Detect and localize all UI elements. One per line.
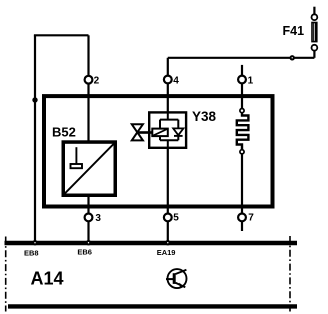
boundary dash-dot left: [5, 237, 7, 312]
valve Y38 check diode triangle: [173, 128, 183, 135]
wire: stub above terminal 1: [241, 65, 243, 76]
relay housing box: [44, 96, 273, 206]
wire: terminal 2 to B52 box: [87, 84, 89, 141]
node: bus junction EA19: [165, 240, 170, 245]
svg-text:4: 4: [173, 75, 179, 86]
fuse F41 body: [312, 22, 317, 42]
semiconductor emitter with arrow: [176, 283, 186, 288]
valve Y38 actuator link line: [138, 131, 153, 134]
svg-text:3: 3: [95, 213, 101, 224]
svg-text:F41: F41: [283, 24, 305, 38]
sensor B52 diagonal: [64, 142, 116, 195]
valve Y38 outer box: [149, 112, 186, 147]
svg-text:A14: A14: [31, 268, 64, 288]
heater element top terminal circle: [240, 109, 244, 113]
semiconductor base bar: [173, 273, 176, 284]
wire: heater element to terminal 7: [241, 154, 243, 214]
valve Y38 coil diagonal: [153, 129, 168, 136]
svg-text:1: 1: [248, 75, 254, 86]
ground bus bar: [5, 241, 298, 246]
valve Y38: [132, 112, 186, 149]
sensor B52 probe symbol stem: [75, 147, 77, 164]
terminal 2 circle: [85, 76, 93, 84]
wire: terminal 4 to valve Y38: [167, 84, 169, 113]
valve Y38 actuator bowtie bottom triangle: [132, 132, 143, 140]
semiconductor collector: [176, 270, 187, 274]
sensor B52 probe symbol plate: [71, 164, 83, 168]
svg-text:2: 2: [94, 76, 100, 87]
terminal 1 circle: [238, 76, 246, 84]
fuse F41 lead bottom: [313, 50, 315, 57]
valve Y38 right branch upper: [177, 120, 179, 128]
fuse F41 top stub: [313, 7, 315, 15]
sensor B52 box: [63, 142, 115, 195]
fuse F41 top terminal circle: [312, 14, 318, 20]
terminal 7 circle: [238, 214, 246, 222]
fuse F41 bottom terminal circle: [312, 45, 318, 51]
svg-text:EB8: EB8: [24, 248, 39, 257]
wire: terminal 4 drop: [167, 58, 169, 76]
wire: terminal 2 drop: [87, 35, 89, 75]
heater element bottom terminal circle: [240, 150, 244, 154]
terminal 4 circle: [164, 76, 172, 84]
svg-text:EB6: EB6: [77, 248, 92, 257]
svg-text:Y38: Y38: [192, 109, 217, 124]
wire: Y38 bottom to terminal 5: [167, 149, 169, 214]
node: splice on left riser: [32, 97, 37, 102]
semiconductor symbol in A14: [166, 269, 187, 288]
wire: stub below terminal 7: [241, 221, 243, 231]
valve Y38 exit stub: [167, 140, 169, 148]
heater element meander resistor: [237, 113, 249, 150]
svg-text:EA19: EA19: [157, 248, 176, 257]
wire: terminal 1 to heater element: [241, 84, 243, 109]
wire: terminal 3 to ground bus EB6: [87, 221, 89, 244]
valve Y38 actuator bowtie top triangle: [132, 124, 143, 132]
valve Y38 check diode bar: [174, 135, 183, 137]
node: bus junction EB6: [86, 240, 91, 245]
wire: B52 bottom to terminal 3: [87, 197, 89, 214]
valve Y38 right branch lower: [177, 136, 179, 140]
component A14 bottom bar: [8, 304, 297, 308]
semiconductor base lead: [166, 278, 174, 280]
valve Y38 top node line: [160, 119, 178, 121]
valve Y38 coil box: [152, 129, 168, 137]
terminal 3 circle: [85, 214, 93, 222]
wire: top horizontal rail to terminal 2: [34, 34, 89, 36]
semiconductor circle: [168, 269, 187, 288]
valve Y38 entry stub: [167, 112, 169, 120]
valve Y38 bottom node line: [160, 139, 178, 141]
wire: left riser from ground bus up to top rail: [34, 35, 36, 243]
valve Y38 left branch upper: [159, 120, 161, 129]
svg-text:7: 7: [248, 213, 254, 224]
wire: terminal 5 to ground bus EA19: [167, 221, 169, 244]
boundary dash-dot right: [289, 236, 291, 312]
terminal 5 circle: [164, 214, 172, 222]
valve Y38 left branch lower: [159, 136, 161, 140]
node: bus junction EB8: [32, 240, 37, 245]
svg-text:5: 5: [173, 213, 179, 224]
svg-text:B52: B52: [52, 125, 76, 140]
wire: horizontal feed from terminal 4 to fuse F41: [168, 57, 315, 59]
node: splice on fuse feed wire: [290, 55, 295, 60]
